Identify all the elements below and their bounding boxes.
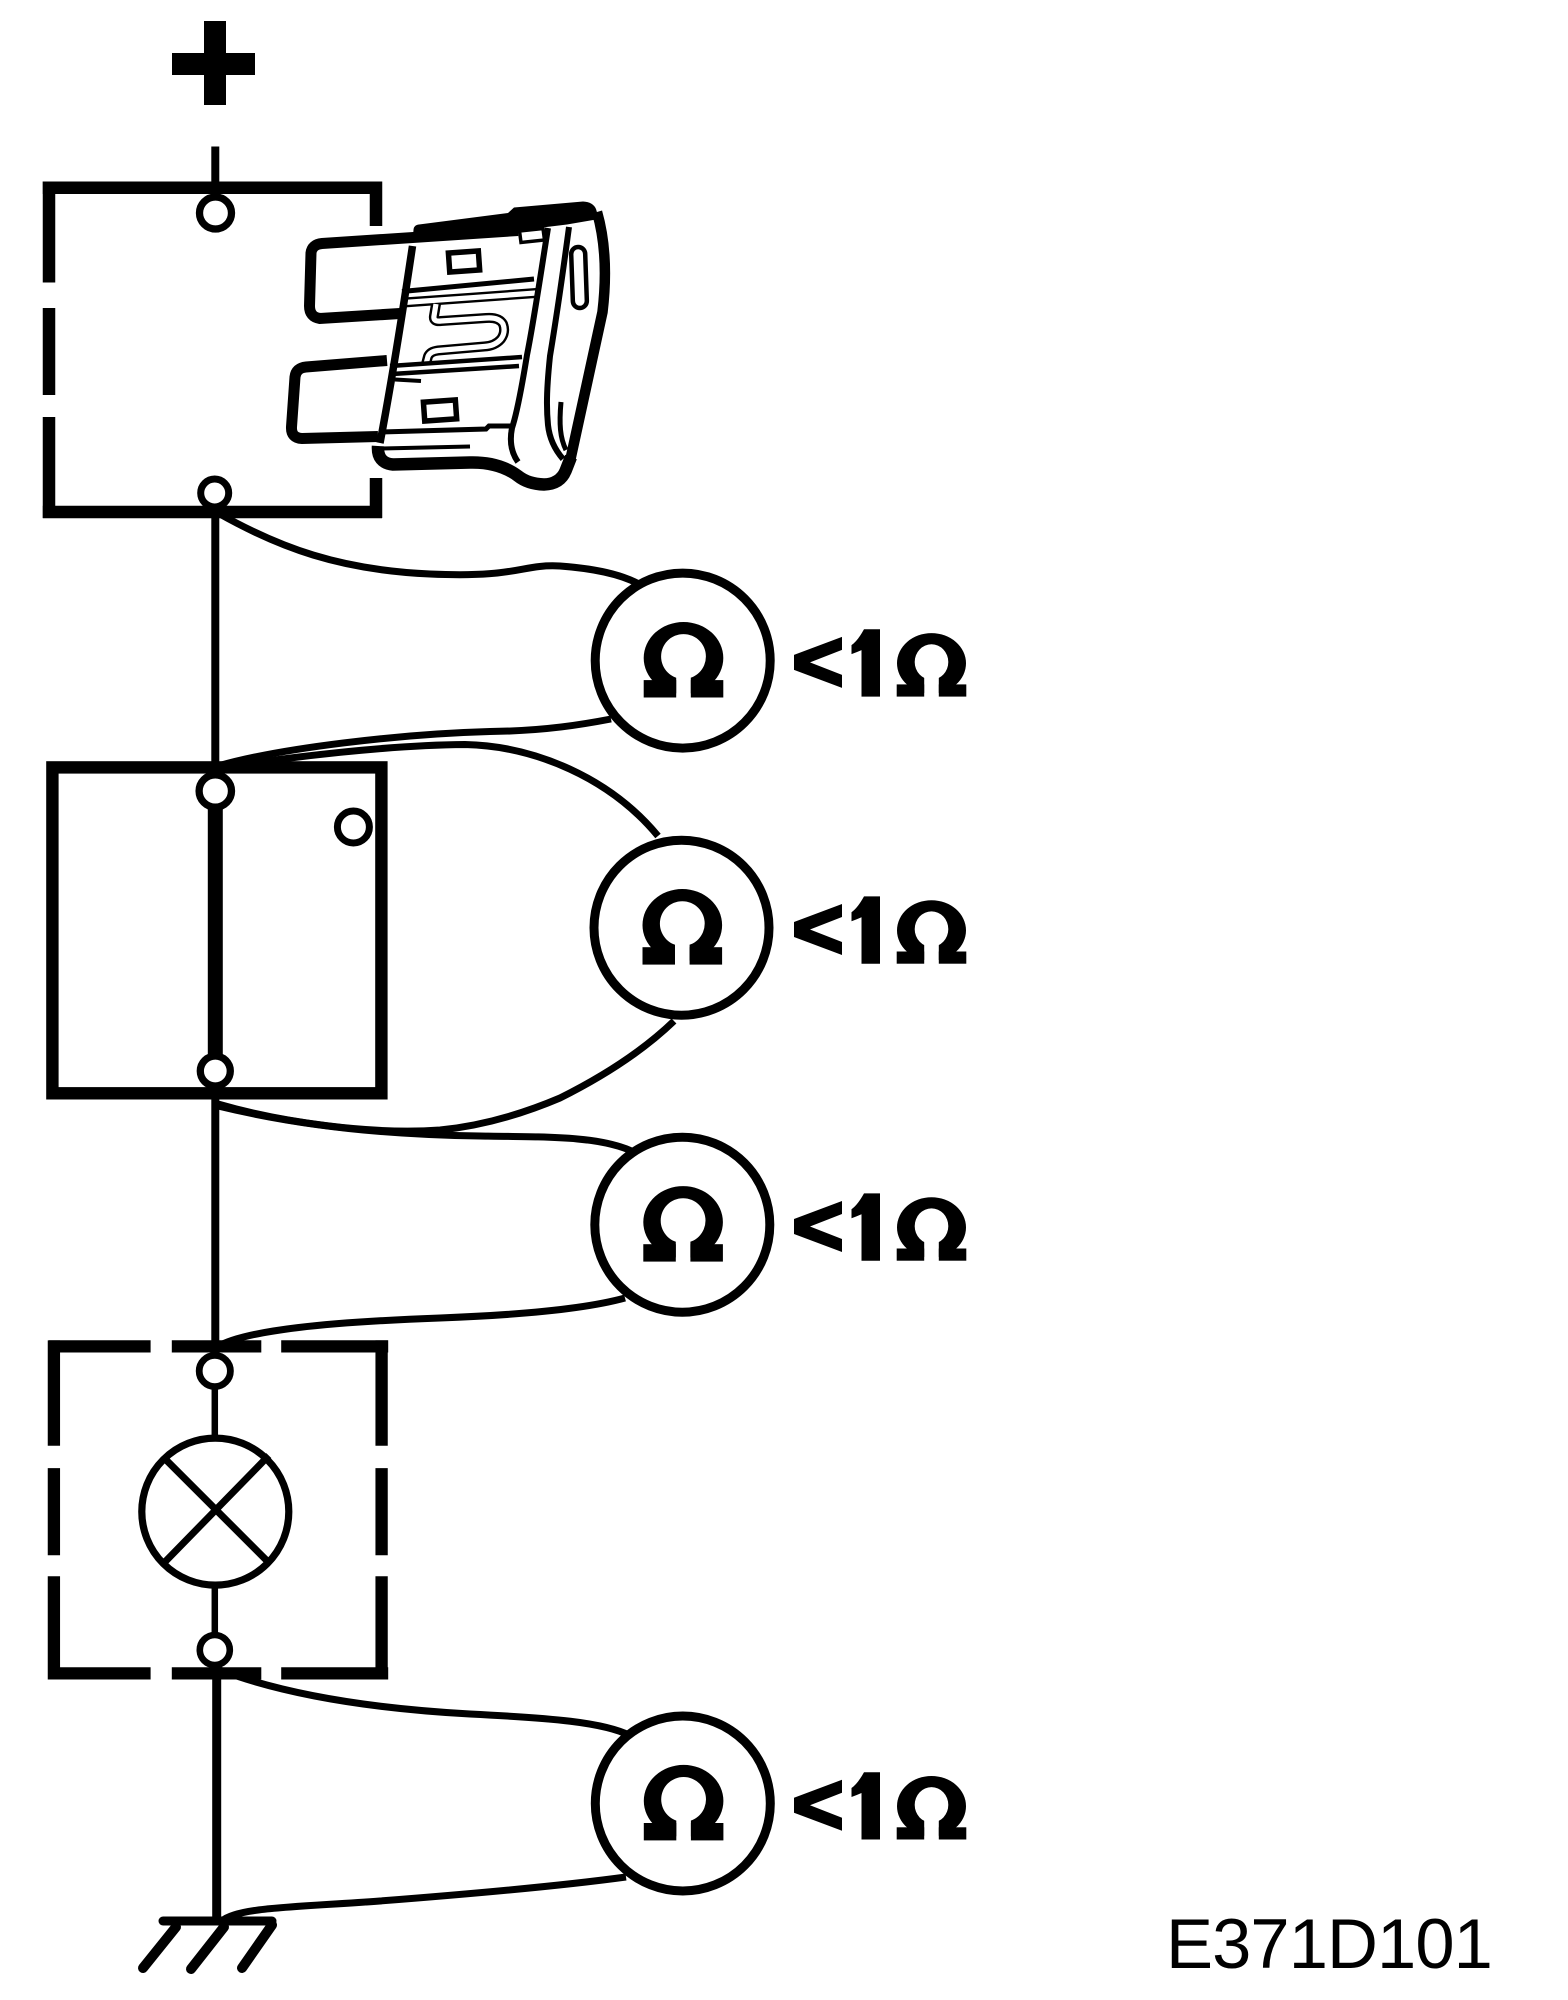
label 2: <1 ohm [794,896,966,964]
fuse body left edge [380,246,413,443]
fuse upper face mark [448,251,479,272]
wire A: fuse output to ohmmeter 1 [218,513,648,590]
lamp top terminal [199,1355,230,1386]
fuse bottom rim line 1 [380,426,513,432]
ohmmeter 1 [595,573,770,748]
wire B: ohmmeter 1 to relay input [218,719,611,766]
relay box [52,767,381,1093]
relay auxiliary terminal [337,811,369,843]
fuse lower-left face short line [395,380,421,382]
label 4: <1 ohm [794,1772,966,1840]
label 3: <1 ohm [794,1193,966,1261]
relay bottom terminal [200,1056,230,1086]
fuse white backdrop covering box edge [352,226,392,478]
fuse top rim notch window [520,229,545,243]
lamp box (dashed) [49,1340,389,1679]
fuse front-right edge line 2 [547,227,569,459]
wire H: ohmmeter 4 to ground [222,1877,626,1921]
fuse holder box (dashed) [43,182,382,519]
relay top terminal [199,775,231,807]
svg-text:E371D101: E371D101 [1166,1904,1492,1983]
fuse element (serpentine) [404,293,536,364]
wire D: ohmmeter 2 to relay output [218,1021,674,1131]
relay internal connection line [208,800,223,1062]
label 1: <1 ohm [794,629,966,697]
ohmmeter 4 [595,1716,770,1891]
fuse right-face slot [571,247,587,308]
fuse illustration (automotive blade fuse) [286,196,610,492]
wire F: ohmmeter 3 to lamp input [217,1298,625,1347]
fuse body bottom edge [378,446,571,485]
fuse bottom rim line 2 [382,447,470,449]
fuse window bottom boundary [390,357,522,374]
lamp bottom terminal [200,1635,230,1665]
wire from fuse holder to relay box [211,505,219,780]
fuse holder bottom terminal [201,479,229,507]
fuse front-right edge line 1 [511,228,548,462]
wire from relay box to lamp box [211,1085,219,1360]
wire E: relay output to ohmmeter 3 [218,1106,634,1152]
ohmmeter 2 [594,840,769,1015]
fuse lower blade terminal [291,361,387,439]
fuse body top band [413,202,599,238]
fuse upper blade terminal [310,231,519,319]
fuse lower face mark [423,400,456,421]
ground symbol [143,1921,272,1969]
wire from lamp box down to ground [212,1660,221,1925]
lamp symbol [142,1438,289,1585]
fuse body right edge [571,212,605,459]
wire from battery plus down to fuse holder [211,147,219,201]
lamp wire stubs [212,1388,219,1634]
battery positive terminal (+) [172,21,255,105]
fuse silhouette [286,196,610,492]
wire G: lamp output to ohmmeter 4 [217,1669,631,1736]
wire C: relay input to ohmmeter 2 [218,745,658,837]
fuse holder top terminal [200,197,232,229]
fuse window top boundary [402,279,534,292]
ohmmeter 3 [595,1137,770,1312]
fuse right-face inner short line [560,402,566,450]
